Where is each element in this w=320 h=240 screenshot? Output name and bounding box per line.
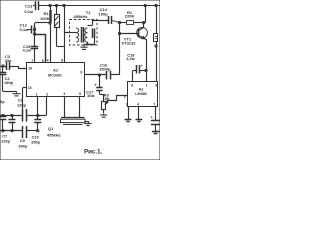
svg-text:5: 5 [79,92,81,96]
svg-text:2: 2 [46,92,48,96]
svg-text:1: 1 [146,84,148,88]
wire pin6 branch [35,34,46,36]
node pin6 branch [34,33,36,35]
ground Q1 [85,121,88,123]
svg-text:10м: 10м [87,93,94,98]
svg-text:2: 2 [126,102,128,106]
wire rail to pin8 [64,6,66,63]
node R2-collector [143,22,145,24]
wire pin4 A2 [138,106,140,119]
svg-text:100K: 100K [40,16,50,21]
node C7 top [11,114,13,116]
capacitor C2 [2,66,4,72]
T1 primary winding [76,28,79,42]
svg-text:C13: C13 [25,4,33,9]
svg-text:0p: 0p [0,99,5,104]
resonator Q1 455kHz [61,117,85,119]
wiper R3 to A2 pin3 [106,96,128,104]
ground C2 [16,92,18,94]
wire top supply rail [39,5,161,7]
svg-text:150p: 150p [31,140,41,145]
node C14-VT1 base [118,22,120,24]
wire pin1 A2 [146,71,148,83]
node C4 top [2,114,4,116]
svg-text:180p: 180p [4,80,14,85]
wire pin7 A2 [155,106,157,121]
node rail-R4 [155,4,157,6]
op-amp U A2 LM386 [128,82,158,107]
svg-text:6: 6 [42,59,44,63]
svg-text:220K: 220K [125,14,135,19]
svg-text:+: + [151,115,154,120]
wire pin15 [23,87,27,89]
T1 core [81,27,83,43]
wire pin2 A2 [128,106,130,119]
crystal ZQ1 [56,6,58,15]
op-amp U A1 MC3361 [27,63,85,97]
wire pin7 vertical [34,23,36,46]
node C12-pin7 line [34,28,36,30]
svg-text:300p: 300p [18,144,28,149]
wire pin2 [46,97,48,116]
node pin9-C17 [98,74,100,76]
svg-text:3: 3 [63,92,65,96]
node rail-VT1 [144,4,146,6]
svg-text:Рис.1.: Рис.1. [84,149,103,156]
wire top bus [0,115,22,117]
svg-text:1500p: 1500p [99,66,111,71]
svg-text:100p: 100p [99,11,109,16]
wire to pin16 [19,67,27,69]
node C4 bottom [2,130,4,132]
svg-text:MC3361: MC3361 [48,73,62,77]
svg-text:7: 7 [31,59,33,63]
svg-text:LM386: LM386 [135,92,146,96]
svg-text:A1: A1 [53,68,59,73]
svg-text:120p: 120p [1,139,11,144]
svg-text:8: 8 [155,84,157,88]
node pin1-topbus [37,114,39,116]
svg-text:455kHz: 455kHz [74,14,88,19]
svg-text:6: 6 [131,84,133,88]
wire rail to collector [145,6,147,23]
wire bottom bus [0,130,23,132]
svg-text:+: + [141,63,144,68]
emitter lead with arrow [139,36,147,71]
wire pin4 drop [50,23,52,62]
capacitor C9 [22,126,24,138]
ground pin4 [136,119,143,121]
svg-text:8: 8 [61,59,63,63]
T1 secondary winding [85,28,88,42]
capacitor C10 [34,119,41,121]
svg-text:4: 4 [47,59,49,63]
wire pin1 [37,97,39,120]
svg-text:4: 4 [137,102,139,106]
svg-text:0,1м: 0,1м [23,47,31,52]
wire C16 to base [119,34,121,76]
svg-text:120p: 120p [17,103,27,108]
svg-text:Q1: Q1 [48,126,54,131]
svg-text:3: 3 [124,95,126,99]
wire pin3 to Q1 [64,97,66,118]
svg-text:0,1м: 0,1м [24,9,33,14]
node R1-pin4 [49,22,51,24]
node C3-C2 [2,65,4,67]
svg-text:КТ3132: КТ3132 [122,41,137,46]
wire R1 bottom to C12 node [35,22,50,24]
ground T1 [83,45,85,47]
svg-text:2,2м: 2,2м [126,56,135,61]
svg-text:7: 7 [153,102,155,106]
node C10-bottombus [37,130,39,132]
svg-text:15: 15 [28,86,32,90]
node rail-ZQ1 [55,4,57,6]
node rail-R1 [49,4,51,6]
node C7 bottom [11,130,13,132]
ground C19 [152,131,160,133]
node base-C16 [118,32,120,34]
ground R3 [103,113,105,115]
T1 internal capacitor [88,25,93,27]
wire T1 primary stub [64,32,76,34]
node rail-T1 [63,4,65,6]
ground pin2 [125,119,132,121]
resistor R4 [156,6,158,34]
svg-text:16: 16 [28,66,32,70]
svg-text:0,1м: 0,1м [20,27,29,32]
svg-text:C9: C9 [20,138,26,143]
node supply branch [155,45,157,47]
wire base [119,23,121,34]
collector lead [139,23,144,31]
node emitter-C18 [145,69,147,71]
svg-text:455kHz: 455kHz [47,133,61,138]
wire crystal to pin8 line [57,46,65,48]
svg-text:9: 9 [80,71,82,75]
svg-text:1: 1 [36,92,38,96]
svg-text:33p: 33p [5,58,12,63]
capacitor C7 [12,116,14,120]
wire pin5 to Q1 [79,97,81,118]
